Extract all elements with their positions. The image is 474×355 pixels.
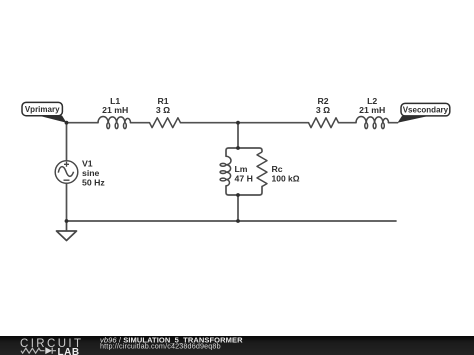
svg-text:Vsecondary: Vsecondary bbox=[403, 105, 449, 114]
svg-text:LAB: LAB bbox=[58, 347, 80, 355]
svg-text:Lm: Lm bbox=[235, 164, 248, 174]
svg-text:47 H: 47 H bbox=[235, 174, 253, 184]
svg-text:3 Ω: 3 Ω bbox=[316, 105, 330, 115]
svg-text:http://circuitlab.com/c4238d6d: http://circuitlab.com/c4238d6d9eq8b bbox=[100, 341, 221, 350]
svg-text:V1: V1 bbox=[82, 158, 93, 168]
svg-text:Rc: Rc bbox=[272, 164, 283, 174]
svg-text:sine: sine bbox=[82, 168, 100, 178]
svg-text:100 kΩ: 100 kΩ bbox=[272, 174, 300, 184]
svg-text:Vprimary: Vprimary bbox=[25, 105, 60, 114]
svg-text:3 Ω: 3 Ω bbox=[156, 105, 170, 115]
svg-text:50 Hz: 50 Hz bbox=[82, 177, 105, 187]
svg-text:21 mH: 21 mH bbox=[102, 105, 128, 115]
svg-text:21 mH: 21 mH bbox=[359, 105, 385, 115]
